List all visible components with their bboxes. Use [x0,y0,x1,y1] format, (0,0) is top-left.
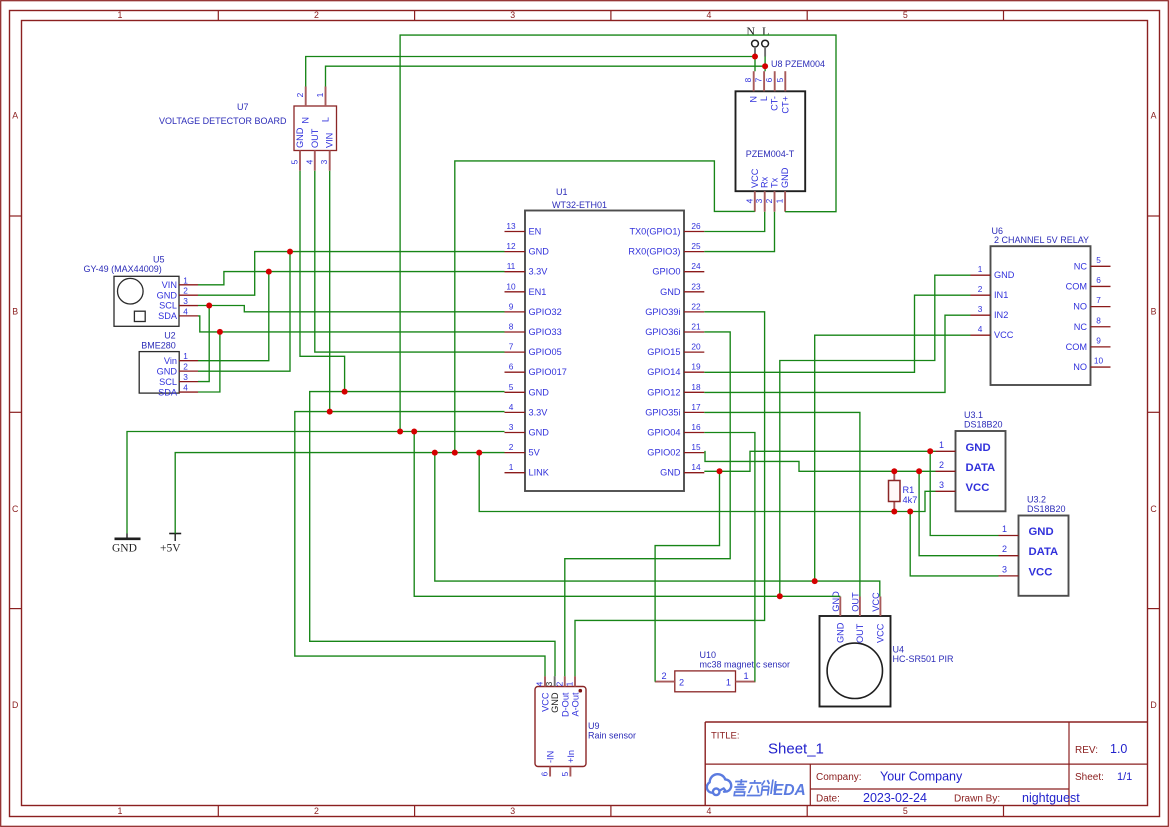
power symbol +5V [160,534,181,555]
svg-text:U7: U7 [237,102,249,112]
svg-text:4: 4 [509,402,514,412]
svg-text:3: 3 [183,296,188,306]
svg-text:25: 25 [691,241,701,251]
svg-text:SCL: SCL [159,301,177,311]
svg-text:12: 12 [506,241,516,251]
svg-text:5: 5 [903,806,908,816]
wire U6 GND drop [780,275,971,596]
svg-text:CT-: CT- [770,96,780,111]
svg-text:1: 1 [726,678,731,688]
svg-text:20: 20 [691,342,701,352]
svg-text:16: 16 [691,422,701,432]
svg-text:3: 3 [509,422,514,432]
svg-text:2: 2 [314,806,319,816]
svg-text:GND: GND [550,692,560,713]
svg-text:L: L [762,24,769,38]
svg-text:6: 6 [764,77,774,82]
svg-text:3.3V: 3.3V [529,267,549,277]
wire net GND row3 U1.3 - GND symbol [127,432,505,534]
svg-text:-IN: -IN [546,751,556,763]
svg-text:GND: GND [836,622,846,643]
svg-text:5: 5 [903,10,908,20]
wire net 5V row2 U1.2 - +5V symbol [175,453,504,534]
svg-text:COM: COM [1066,281,1087,291]
svg-text:2: 2 [679,678,684,688]
svg-text:GPIO04: GPIO04 [647,428,680,438]
svg-text:GPIO0: GPIO0 [652,267,680,277]
svg-text:U9: U9 [588,721,600,731]
svg-text:15: 15 [691,442,701,452]
wire U7 GND - U1 GND row5 [300,171,345,392]
svg-text:13: 13 [506,221,516,231]
svg-text:1/1: 1/1 [1117,771,1132,783]
svg-text:3: 3 [319,159,329,164]
svg-text:VIN: VIN [162,280,177,290]
svg-text:5: 5 [560,771,570,776]
svg-text:4k7: 4k7 [903,495,918,505]
svg-text:DATA: DATA [966,462,996,474]
svg-text:GPIO32: GPIO32 [529,307,562,317]
wire net N (U7.2 - N terminal - PZEM N) [306,57,755,87]
svg-text:24: 24 [691,261,701,271]
svg-text:3: 3 [978,304,983,314]
svg-text:C: C [12,504,19,514]
svg-text:D: D [12,700,18,710]
svg-text:8: 8 [1096,315,1101,325]
svg-text:1: 1 [315,92,325,97]
sensor U4 HC-SR501 PIR [820,591,955,707]
svg-text:21: 21 [691,322,701,332]
svg-text:1: 1 [183,275,188,285]
JLCEDA logo [707,774,806,799]
svg-text:REV:: REV: [1075,745,1098,756]
title block [705,722,1147,806]
svg-text:GND: GND [529,247,550,257]
wire net 5V to PZEM VCC [455,161,755,453]
svg-text:VIN: VIN [325,133,335,148]
wire U1 GPIO04 - U10.1 [704,433,755,682]
svg-text:VCC: VCC [541,692,551,712]
svg-text:IN2: IN2 [994,310,1008,320]
sensor U9 Rain sensor [535,676,637,776]
svg-text:IN1: IN1 [994,290,1008,300]
wire U2.3 SCL riser [198,306,209,382]
wire net GND row U1.12 - U5.2 [198,252,505,296]
svg-text:GPIO12: GPIO12 [647,387,680,397]
svg-text:6: 6 [1096,275,1101,285]
wire U2.4 SDA riser [198,332,220,392]
wire DATA drop to U3.2 DATA [919,471,998,555]
wire U7 VIN - U1 3.3V row4 [329,171,331,412]
svg-text:3: 3 [544,681,554,686]
svg-text:2: 2 [1002,544,1007,554]
svg-text:3: 3 [510,10,515,20]
svg-text:+5V: +5V [160,543,181,555]
svg-text:1: 1 [118,806,123,816]
svg-text:10: 10 [1094,356,1104,366]
ground symbol GND [112,534,141,555]
svg-text:U4: U4 [893,645,905,655]
svg-text:VOLTAGE DETECTOR BOARD: VOLTAGE DETECTOR BOARD [159,116,287,126]
svg-text:GPIO05: GPIO05 [529,347,562,357]
svg-text:GND: GND [529,387,550,397]
svg-text:SDA: SDA [158,311,178,321]
svg-text:A: A [12,111,18,121]
svg-text:1: 1 [978,264,983,274]
svg-text:WT32-ETH01: WT32-ETH01 [552,200,607,210]
svg-text:1: 1 [183,351,188,361]
svg-text:N: N [749,96,759,103]
svg-text:2: 2 [509,442,514,452]
svg-text:GPIO15: GPIO15 [647,347,680,357]
wire U1 GPIO36i - U9 D-Out [565,332,730,676]
module U7 VOLTAGE DETECTOR BOARD [159,87,337,171]
svg-text:2: 2 [183,362,188,372]
svg-text:U10: U10 [700,650,717,660]
svg-text:CT+: CT+ [780,96,790,114]
wire U3.1 GND drop to U3.2 GND [930,451,998,535]
svg-text:GND: GND [529,428,550,438]
wire net DATA U1 GPIO02 - U3.1 DATA [704,452,935,472]
svg-text:GPIO14: GPIO14 [647,367,680,377]
svg-text:HC-SR501 PIR: HC-SR501 PIR [893,654,955,664]
svg-text:RX0(GPIO3): RX0(GPIO3) [628,247,680,257]
svg-text:3: 3 [939,480,944,490]
svg-text:17: 17 [691,402,701,412]
svg-text:DATA: DATA [1029,546,1059,558]
svg-text:GND: GND [157,290,178,300]
wire U1 GPIO12 - U6 IN2 [704,315,970,392]
svg-text:11: 11 [507,261,516,271]
wire PZEM Rx - U1 TX0 [704,212,764,232]
svg-text:7: 7 [1096,295,1101,305]
svg-text:VCC: VCC [750,168,760,188]
svg-text:GND: GND [660,468,681,478]
svg-text:GPIO017: GPIO017 [529,367,567,377]
sensor U3.2 DS18B20 [999,495,1069,596]
svg-text:D: D [1150,700,1156,710]
IC U1 WT32-ETH01 [505,187,705,491]
wire U7 OUT - U1 GPIO05 [315,171,505,352]
svg-text:NC: NC [1074,261,1088,271]
svg-text:6: 6 [540,771,550,776]
wire net VCC rail R1 - U3.1 VCC - U3.2 VCC [479,453,935,512]
svg-text:1: 1 [743,671,748,681]
svg-text:5V: 5V [529,448,541,458]
svg-text:GND: GND [831,591,841,612]
svg-text:LINK: LINK [529,468,550,478]
svg-text:Rain sensor: Rain sensor [588,731,636,741]
svg-text:GPIO35i: GPIO35i [645,407,680,417]
svg-text:3: 3 [754,198,764,203]
svg-text:COM: COM [1066,342,1087,352]
svg-text:5: 5 [509,382,514,392]
svg-text:3: 3 [510,806,515,816]
svg-text:OUT: OUT [851,592,861,612]
svg-text:14: 14 [691,462,701,472]
module U6 2 CHANNEL 5V RELAY [971,226,1111,385]
svg-text:Rx: Rx [760,176,770,188]
wire PZEM Tx - U1 RX0 [704,212,774,252]
svg-text:2: 2 [314,10,319,20]
svg-text:OUT: OUT [855,623,865,643]
terminal N [746,24,758,57]
svg-text:GY-49 (MAX44009): GY-49 (MAX44009) [84,264,162,274]
svg-text:2: 2 [661,671,666,681]
svg-text:nightguest: nightguest [1022,791,1080,805]
svg-text:4: 4 [707,10,712,20]
svg-text:1: 1 [939,440,944,450]
svg-text:2: 2 [939,460,944,470]
svg-text:EN: EN [529,227,542,237]
svg-text:A-Out: A-Out [571,692,581,716]
svg-text:VCC: VCC [994,330,1014,340]
svg-text:4: 4 [535,681,545,686]
svg-text:PZEM004-T: PZEM004-T [746,149,795,159]
svg-text:4: 4 [304,159,314,164]
wire U1 GPIO39i - U9 A-Out [575,312,765,676]
svg-text:4: 4 [707,806,712,816]
svg-text:GND: GND [780,167,790,188]
svg-text:1: 1 [1002,524,1007,534]
svg-text:DS18B20: DS18B20 [964,420,1003,430]
svg-text:9: 9 [1096,335,1101,345]
svg-text:GND: GND [157,366,178,376]
wire U1 GPIO35i - U4 OUT [704,412,860,596]
wire net VCC bottom rail (5V - U6 VCC - U4 VCC) [435,453,880,597]
wire net 3.3V row4 U1.4 - U9 VCC [295,412,545,677]
svg-text:2: 2 [554,681,564,686]
svg-text:L: L [759,96,769,101]
svg-text:2: 2 [295,92,305,97]
svg-text:5: 5 [775,77,785,82]
svg-text:8: 8 [509,322,514,332]
svg-text:GND: GND [966,442,991,454]
sensor U3.1 DS18B20 [936,410,1006,511]
svg-text:EN1: EN1 [529,287,547,297]
svg-text:DS18B20: DS18B20 [1027,504,1066,514]
svg-text:N: N [301,117,311,124]
svg-text:7: 7 [509,342,514,352]
svg-text:8: 8 [743,77,753,82]
svg-text:2023-02-24: 2023-02-24 [863,791,927,805]
module U8 PZEM004-T [736,59,826,212]
svg-text:1: 1 [775,198,785,203]
terminal L [762,24,770,57]
wire net GND U1.14 - U3.1 GND [704,451,935,471]
sensor U2 BME280 [139,330,198,397]
svg-text:NO: NO [1073,362,1087,372]
svg-text:3: 3 [183,372,188,382]
svg-text:GPIO36i: GPIO36i [645,327,680,337]
wire net GND top rail (PZEM GND - U1 GND row) [400,35,836,431]
svg-text:C: C [1150,504,1157,514]
svg-text:OUT: OUT [310,128,320,148]
wire U2.1 Vin riser [198,272,269,361]
svg-text:7: 7 [754,77,764,82]
sensor U10 mc38 magnetic sensor [655,650,790,692]
svg-text:26: 26 [691,221,701,231]
sensor U5 GY-49 (MAX44009) [84,254,199,326]
svg-text:6: 6 [509,362,514,372]
svg-text:GND: GND [112,543,137,555]
svg-text:SCL: SCL [159,377,177,387]
wire net SCL U5.3 - U1.9 [198,306,505,312]
svg-text:GPIO02: GPIO02 [647,448,680,458]
svg-text:4: 4 [978,324,983,334]
wire U1 GPIO14 - U6 IN1 [704,295,970,372]
svg-text:B: B [1151,307,1157,317]
svg-text:4: 4 [183,383,188,393]
svg-text:4: 4 [744,198,754,203]
svg-text:Date:: Date: [816,794,840,805]
svg-text:Sheet_1: Sheet_1 [768,741,824,758]
svg-text:NC: NC [1074,322,1088,332]
wire net SDA U5.4 - U1.8 [198,316,505,332]
wire net L (U7.1 - L terminal - PZEM L) [326,57,766,87]
svg-text:Your Company: Your Company [880,770,963,784]
svg-text:U8 PZEM004: U8 PZEM004 [771,59,825,69]
svg-text:VCC: VCC [876,623,886,643]
svg-text:TX0(GPIO1): TX0(GPIO1) [629,227,680,237]
svg-text:GND: GND [1029,526,1054,538]
svg-text:GND: GND [295,127,305,148]
svg-text:23: 23 [691,281,701,291]
svg-text:GPIO33: GPIO33 [529,327,562,337]
svg-text:2: 2 [183,286,188,296]
svg-text:1: 1 [509,462,514,472]
svg-text:5: 5 [1096,255,1101,265]
svg-text:22: 22 [691,301,701,311]
svg-text:2: 2 [764,198,774,203]
wire VCC drop to U3.2 VCC [910,512,998,576]
svg-text:mc38 magnetic sensor: mc38 magnetic sensor [700,660,791,670]
svg-text:A: A [1151,111,1157,121]
svg-text:U2: U2 [164,330,176,340]
svg-text:1: 1 [118,10,123,20]
svg-text:GPIO39i: GPIO39i [645,307,680,317]
wire U1.14 GND drop to U10.2 [655,471,719,681]
svg-text:U1: U1 [556,187,568,197]
svg-text:GND: GND [994,270,1015,280]
svg-text:4: 4 [183,306,188,316]
wire net GND bottom rail (row3 - U6 GND - U4 GND) [414,432,840,597]
svg-text:9: 9 [509,301,514,311]
svg-text:EDA: EDA [773,782,806,799]
svg-text:10: 10 [506,281,516,291]
svg-text:D-Out: D-Out [560,692,570,717]
svg-text:B: B [12,307,18,317]
svg-text:3: 3 [1002,564,1007,574]
svg-text:3.3V: 3.3V [529,407,549,417]
svg-text:19: 19 [691,362,701,372]
svg-text:18: 18 [691,382,701,392]
svg-text:NO: NO [1073,302,1087,312]
resistor R1 4k7 [889,471,918,511]
wire net GND row5 U1.5 - U9 GND [310,392,555,677]
svg-text:VCC: VCC [1029,566,1053,578]
svg-text:Vin: Vin [164,356,177,366]
svg-text:1: 1 [565,681,575,686]
wire U6 VCC drop [815,335,971,581]
svg-text:GND: GND [660,287,681,297]
svg-text:5: 5 [290,159,300,164]
svg-text:SDA: SDA [158,387,178,397]
svg-text:Tx: Tx [770,177,780,188]
svg-text:Company:: Company: [816,772,862,783]
svg-text:N: N [746,24,755,38]
svg-text:1.0: 1.0 [1110,742,1127,756]
svg-text:Drawn By:: Drawn By: [954,794,1000,805]
svg-text:+In: +In [566,750,576,763]
svg-text:2 CHANNEL 5V RELAY: 2 CHANNEL 5V RELAY [994,235,1089,245]
svg-text:R1: R1 [903,485,915,495]
svg-text:TITLE:: TITLE: [711,731,740,742]
svg-text:Sheet:: Sheet: [1075,772,1104,783]
svg-text:L: L [321,117,331,122]
svg-text:2: 2 [978,284,983,294]
svg-text:BME280: BME280 [141,340,176,350]
wire U2.2 GND riser [198,252,290,372]
svg-text:VCC: VCC [966,482,990,494]
wire net 3.3V row U1.11 - U5.1 [198,272,505,285]
